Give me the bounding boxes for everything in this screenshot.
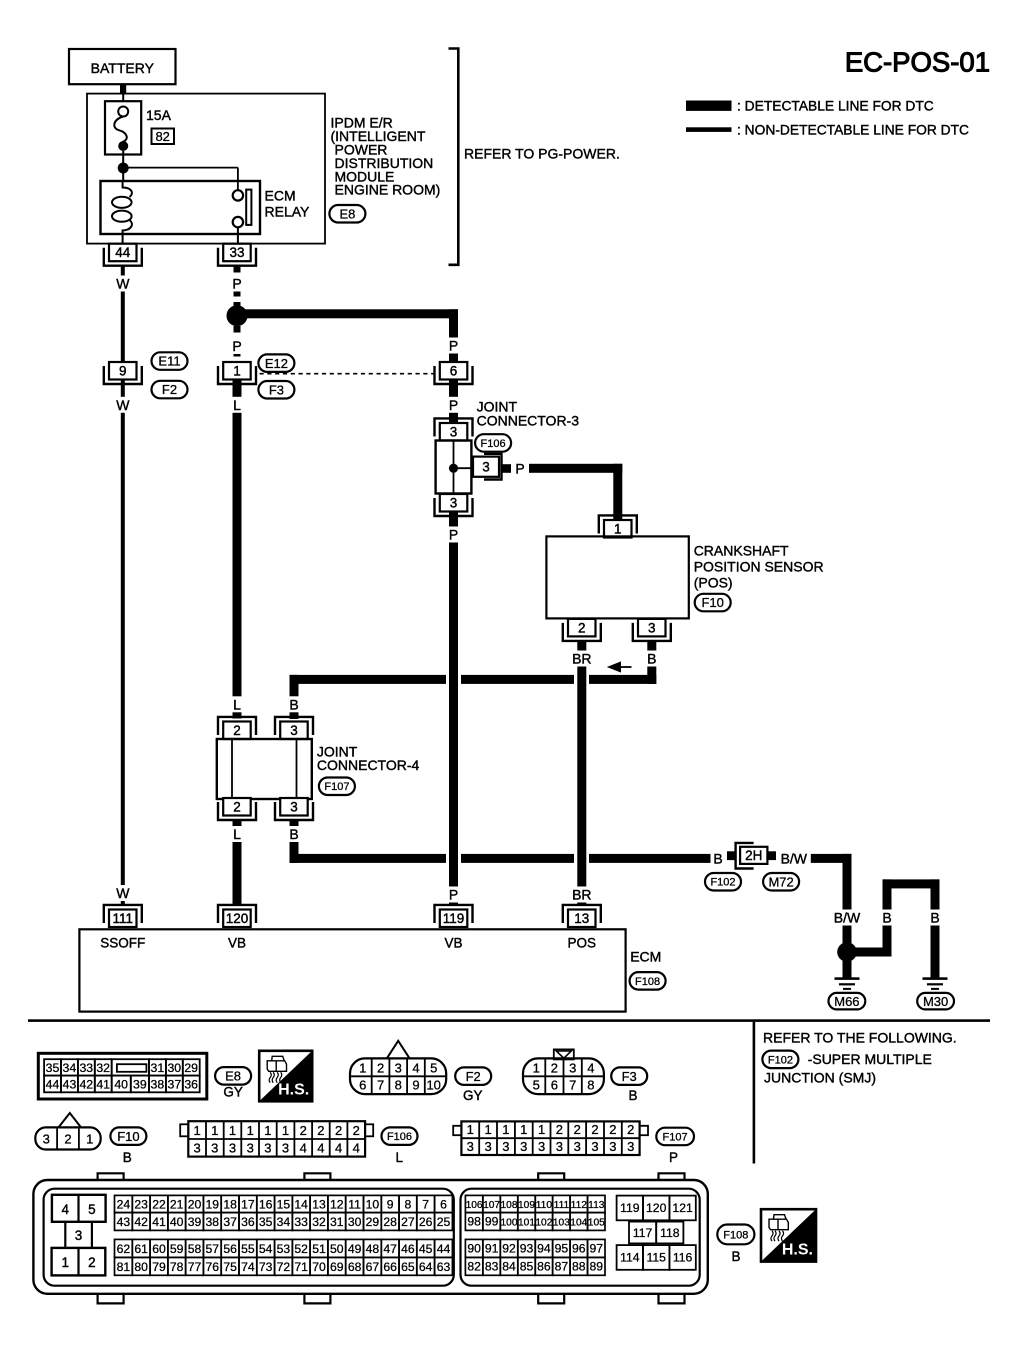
svg-text:82: 82 <box>467 1259 481 1273</box>
connector E8 oval <box>329 205 365 223</box>
svg-text:E11: E11 <box>158 354 180 369</box>
connector F3 oval <box>258 381 294 399</box>
svg-text:2: 2 <box>64 1131 71 1146</box>
joint connector-3 bottom terminal 3 <box>435 498 473 516</box>
label P <box>447 527 461 543</box>
svg-text:111: 111 <box>554 1200 570 1211</box>
svg-text:57: 57 <box>206 1242 220 1256</box>
svg-text:29: 29 <box>184 1061 198 1075</box>
svg-text:GY: GY <box>463 1088 483 1103</box>
svg-text:113: 113 <box>588 1200 605 1211</box>
F108 pins 114-121 <box>617 1196 643 1221</box>
svg-text:98: 98 <box>467 1214 481 1228</box>
svg-text:90: 90 <box>467 1241 481 1255</box>
svg-text:112: 112 <box>571 1200 588 1211</box>
label P <box>230 338 244 354</box>
svg-text:L: L <box>233 696 241 712</box>
svg-text:59: 59 <box>170 1242 184 1256</box>
svg-text:1: 1 <box>502 1122 509 1137</box>
svg-text:10: 10 <box>366 1197 380 1211</box>
svg-text:85: 85 <box>520 1259 534 1273</box>
svg-text:39: 39 <box>133 1078 147 1092</box>
svg-text:JUNCTION (SMJ): JUNCTION (SMJ) <box>764 1069 876 1085</box>
svg-text:44: 44 <box>437 1242 451 1256</box>
ground M66 <box>835 977 860 980</box>
svg-text:3: 3 <box>290 800 298 815</box>
svg-text:35: 35 <box>46 1061 60 1075</box>
svg-text:103: 103 <box>553 1217 570 1228</box>
connector view F108 ECM <box>98 1173 124 1183</box>
svg-text:20: 20 <box>188 1197 202 1211</box>
svg-text:1: 1 <box>538 1122 545 1137</box>
H.S. icon top <box>259 1051 312 1102</box>
svg-text:F102: F102 <box>710 877 735 889</box>
label P <box>230 276 244 292</box>
vertical divider <box>753 1022 756 1164</box>
svg-text:17: 17 <box>241 1197 255 1211</box>
svg-text:3: 3 <box>450 496 458 511</box>
svg-text:6: 6 <box>359 1078 366 1093</box>
svg-text:3: 3 <box>193 1140 200 1155</box>
svg-text:P: P <box>449 397 458 413</box>
H.S. icon bottom <box>761 1209 816 1261</box>
wire P connector 6 to joint connector-3 <box>449 380 458 425</box>
svg-text:36: 36 <box>184 1078 198 1092</box>
svg-text:7: 7 <box>377 1078 384 1093</box>
svg-text:66: 66 <box>383 1260 397 1274</box>
svg-text:H.S.: H.S. <box>278 1081 309 1098</box>
svg-text:4: 4 <box>62 1202 70 1217</box>
svg-text:CRANKSHAFT: CRANKSHAFT <box>694 543 789 559</box>
svg-text:30: 30 <box>167 1061 181 1075</box>
svg-text:34: 34 <box>277 1215 291 1229</box>
label BR <box>571 651 593 667</box>
wire L joint connector-4 to ECM terminal 120 <box>233 821 242 906</box>
svg-text:F3: F3 <box>269 382 284 397</box>
svg-text:7: 7 <box>569 1078 576 1093</box>
svg-text:E8: E8 <box>339 206 355 221</box>
svg-text:62: 62 <box>117 1242 131 1256</box>
svg-text:5: 5 <box>88 1202 96 1217</box>
svg-text:B/W: B/W <box>834 910 861 926</box>
svg-text:10: 10 <box>426 1078 440 1093</box>
svg-text:L: L <box>396 1150 404 1165</box>
svg-text:78: 78 <box>170 1260 184 1274</box>
svg-text:118: 118 <box>660 1226 680 1240</box>
svg-text:89: 89 <box>590 1259 604 1273</box>
svg-text:P: P <box>449 338 458 354</box>
svg-text:(POS): (POS) <box>694 575 733 591</box>
svg-text:1: 1 <box>229 1123 236 1138</box>
svg-text:M66: M66 <box>834 994 859 1009</box>
dashed link connector 1 to 6 <box>260 373 437 375</box>
label B <box>880 910 894 926</box>
legend detectable line <box>686 101 732 111</box>
connector view F2 <box>387 1041 410 1059</box>
svg-text:EC-POS-01: EC-POS-01 <box>845 47 990 78</box>
connector F102 oval <box>705 873 741 891</box>
svg-text:41: 41 <box>152 1215 166 1229</box>
svg-text:B: B <box>930 910 939 926</box>
svg-text:1: 1 <box>484 1122 491 1137</box>
svg-text:101: 101 <box>518 1217 535 1228</box>
svg-text:49: 49 <box>348 1242 362 1256</box>
svg-text:M72: M72 <box>768 874 793 889</box>
svg-text:81: 81 <box>117 1260 131 1274</box>
svg-text:84: 84 <box>502 1259 516 1273</box>
svg-text:M30: M30 <box>923 994 948 1009</box>
connector F10 oval <box>695 594 731 612</box>
svg-text:54: 54 <box>259 1242 273 1256</box>
svg-text:67: 67 <box>366 1260 380 1274</box>
wire BR sensor pin 2 to ECM terminal 13 <box>577 640 586 905</box>
svg-text:87: 87 <box>555 1259 569 1273</box>
svg-text:52: 52 <box>294 1242 308 1256</box>
label L <box>230 696 244 712</box>
svg-text:5: 5 <box>533 1078 540 1093</box>
svg-text:1: 1 <box>233 364 241 379</box>
connector F108 oval <box>630 972 666 990</box>
svg-text:2: 2 <box>353 1123 360 1138</box>
svg-text:45: 45 <box>419 1242 433 1256</box>
svg-text:121: 121 <box>672 1201 693 1215</box>
svg-text:1: 1 <box>86 1131 93 1146</box>
svg-text:69: 69 <box>330 1260 344 1274</box>
label B <box>287 696 301 712</box>
current direction arrow <box>607 661 621 672</box>
svg-text:65: 65 <box>401 1260 415 1274</box>
svg-text:4: 4 <box>412 1061 419 1076</box>
svg-text:: DETECTABLE LINE FOR DTC: : DETECTABLE LINE FOR DTC <box>737 99 934 114</box>
svg-text:2: 2 <box>233 723 241 738</box>
ECM terminal 119 <box>435 905 473 923</box>
label W <box>116 885 130 901</box>
svg-text:P: P <box>515 460 524 476</box>
svg-text:3: 3 <box>43 1131 50 1146</box>
svg-text:47: 47 <box>383 1242 397 1256</box>
svg-text:2: 2 <box>88 1255 96 1270</box>
svg-text:2: 2 <box>551 1061 558 1076</box>
svg-text:B/W: B/W <box>781 850 808 866</box>
svg-text:1: 1 <box>467 1122 474 1137</box>
wire P joint connector-3 to sensor pin 1 <box>529 464 622 473</box>
label W <box>116 397 130 413</box>
svg-text:1: 1 <box>282 1123 289 1138</box>
connector F3 view oval <box>611 1067 647 1085</box>
svg-text:1: 1 <box>264 1123 271 1138</box>
connector view F3 <box>554 1049 574 1059</box>
svg-text:26: 26 <box>419 1215 433 1229</box>
connector M72 oval <box>763 873 799 891</box>
F108 left pin grid <box>115 1195 133 1212</box>
svg-text:F107: F107 <box>663 1131 688 1143</box>
svg-text:3: 3 <box>75 1228 83 1243</box>
svg-text:15A: 15A <box>146 107 172 123</box>
joint connector-4 top terminal 3 <box>275 717 313 735</box>
connector F2 view oval <box>455 1067 491 1085</box>
svg-text:W: W <box>116 276 130 292</box>
connector terminal 1 <box>218 366 256 384</box>
svg-text:3: 3 <box>569 1061 576 1076</box>
svg-text:34: 34 <box>63 1061 77 1075</box>
svg-text:L: L <box>233 826 241 842</box>
joint connector-4 bottom terminal 2 <box>218 802 256 820</box>
svg-text:1: 1 <box>211 1123 218 1138</box>
svg-text:VB: VB <box>228 935 246 950</box>
svg-text:30: 30 <box>348 1215 362 1229</box>
ground M30 <box>923 977 948 980</box>
svg-text:F10: F10 <box>117 1129 139 1144</box>
svg-text:3: 3 <box>290 723 298 738</box>
connector F107 oval <box>319 778 355 796</box>
svg-text:3: 3 <box>482 460 490 475</box>
svg-text:RELAY: RELAY <box>265 203 311 219</box>
svg-text:1: 1 <box>533 1061 540 1076</box>
svg-text:18: 18 <box>223 1197 237 1211</box>
svg-text:F102: F102 <box>768 1054 793 1066</box>
sensor pin 1 <box>599 515 637 533</box>
svg-text:3: 3 <box>484 1139 491 1154</box>
svg-text:3: 3 <box>648 620 656 635</box>
svg-text:3: 3 <box>609 1139 616 1154</box>
svg-text:61: 61 <box>134 1242 148 1256</box>
svg-text:B: B <box>123 1150 132 1165</box>
label B <box>287 826 301 842</box>
connector F106 view oval <box>382 1127 418 1145</box>
svg-text:120: 120 <box>226 911 249 926</box>
svg-text:29: 29 <box>366 1215 380 1229</box>
svg-text:107: 107 <box>483 1200 500 1211</box>
svg-text:H.S.: H.S. <box>782 1242 813 1259</box>
sensor pin 3 <box>633 623 671 641</box>
svg-text:94: 94 <box>537 1241 551 1255</box>
svg-text:86: 86 <box>537 1259 551 1273</box>
svg-text:55: 55 <box>241 1242 255 1256</box>
joint connector-3 body <box>436 441 472 494</box>
svg-text:4: 4 <box>587 1061 594 1076</box>
svg-text:F106: F106 <box>387 1131 412 1143</box>
svg-text:119: 119 <box>620 1201 640 1215</box>
label P <box>447 397 461 413</box>
connector F102 oval note <box>762 1051 798 1069</box>
svg-text:42: 42 <box>134 1215 148 1229</box>
svg-text:2: 2 <box>335 1123 342 1138</box>
svg-text:1: 1 <box>247 1123 254 1138</box>
svg-text:43: 43 <box>63 1078 77 1092</box>
svg-text:3: 3 <box>556 1139 563 1154</box>
svg-text:E12: E12 <box>265 356 288 371</box>
svg-text:36: 36 <box>241 1215 255 1229</box>
svg-text:37: 37 <box>223 1215 237 1229</box>
svg-text:3: 3 <box>502 1139 509 1154</box>
svg-text:24: 24 <box>117 1197 131 1211</box>
svg-text:21: 21 <box>170 1197 184 1211</box>
svg-text:B: B <box>289 696 298 712</box>
svg-text:109: 109 <box>518 1200 535 1211</box>
svg-text:F107: F107 <box>324 781 349 793</box>
joint connector-4 body <box>217 739 312 799</box>
svg-text:3: 3 <box>591 1139 598 1154</box>
svg-text:2: 2 <box>317 1123 324 1138</box>
svg-text:44: 44 <box>115 245 131 260</box>
svg-text:E8: E8 <box>225 1069 241 1084</box>
svg-text:P: P <box>669 1150 678 1165</box>
svg-text:3: 3 <box>264 1140 271 1155</box>
svg-text:3: 3 <box>229 1140 236 1155</box>
IPDM E/R box <box>87 94 325 244</box>
svg-text:83: 83 <box>485 1259 499 1273</box>
svg-text:41: 41 <box>96 1078 110 1092</box>
F108 pins 1-5 <box>52 1195 106 1222</box>
svg-text:3: 3 <box>520 1139 527 1154</box>
svg-text:38: 38 <box>151 1078 165 1092</box>
svg-text:ECM: ECM <box>265 187 296 203</box>
svg-text:48: 48 <box>366 1242 380 1256</box>
svg-text:82: 82 <box>155 129 169 144</box>
svg-text:63: 63 <box>437 1260 451 1274</box>
svg-text:SSOFF: SSOFF <box>100 935 145 950</box>
connector view F107 <box>453 1126 461 1135</box>
label P <box>447 887 461 903</box>
svg-text:BATTERY: BATTERY <box>91 60 155 76</box>
connector terminal 9 <box>104 366 142 384</box>
svg-text:75: 75 <box>223 1260 237 1274</box>
svg-text:ENGINE ROOM): ENGINE ROOM) <box>335 182 441 198</box>
svg-text:31: 31 <box>151 1061 165 1075</box>
svg-text:12: 12 <box>330 1197 344 1211</box>
svg-text:51: 51 <box>312 1242 326 1256</box>
wire L connector 1 to joint connector-4 <box>233 380 242 719</box>
wire B junction to ground M30 <box>847 948 892 957</box>
svg-text:28: 28 <box>383 1215 397 1229</box>
svg-text:4: 4 <box>335 1140 342 1155</box>
svg-text:GY: GY <box>223 1085 243 1100</box>
svg-text:1: 1 <box>62 1255 70 1270</box>
svg-text:13: 13 <box>312 1197 326 1211</box>
svg-text:38: 38 <box>206 1215 220 1229</box>
svg-text:40: 40 <box>114 1078 128 1092</box>
svg-text:L: L <box>233 397 241 413</box>
label B/W <box>832 910 863 926</box>
svg-text:9: 9 <box>412 1078 419 1093</box>
svg-text:: NON-DETECTABLE LINE FOR DTC: : NON-DETECTABLE LINE FOR DTC <box>737 123 969 138</box>
svg-text:REFER TO PG-POWER.: REFER TO PG-POWER. <box>464 145 620 161</box>
svg-text:60: 60 <box>152 1242 166 1256</box>
crankshaft position sensor body <box>546 536 688 618</box>
svg-text:6: 6 <box>551 1078 558 1093</box>
svg-text:3: 3 <box>627 1139 634 1154</box>
terminal 33 <box>218 248 256 266</box>
wire W from terminal 44 to ECM terminal 111 <box>121 266 125 906</box>
connector F106 oval <box>475 434 511 452</box>
svg-text:2: 2 <box>574 1122 581 1137</box>
svg-text:99: 99 <box>485 1214 499 1228</box>
svg-text:6: 6 <box>450 364 458 379</box>
svg-text:40: 40 <box>170 1215 184 1229</box>
svg-text:53: 53 <box>277 1242 291 1256</box>
svg-text:11: 11 <box>348 1197 361 1211</box>
svg-text:93: 93 <box>520 1241 534 1255</box>
svg-text:BR: BR <box>572 651 591 667</box>
svg-text:5: 5 <box>430 1061 437 1076</box>
ECM relay <box>101 181 261 234</box>
fuse 15A 82 <box>122 94 124 102</box>
label BR <box>571 887 593 903</box>
svg-text:80: 80 <box>134 1260 148 1274</box>
svg-text:3: 3 <box>395 1061 402 1076</box>
svg-text:23: 23 <box>134 1197 148 1211</box>
svg-text:73: 73 <box>259 1260 273 1274</box>
svg-text:97: 97 <box>590 1241 604 1255</box>
svg-text:7: 7 <box>422 1197 429 1211</box>
svg-text:P: P <box>449 527 458 543</box>
label B <box>645 651 659 667</box>
svg-text:16: 16 <box>259 1197 273 1211</box>
svg-text:4: 4 <box>317 1140 324 1155</box>
svg-text:2: 2 <box>627 1122 634 1137</box>
svg-text:42: 42 <box>79 1078 93 1092</box>
svg-text:111: 111 <box>113 911 134 926</box>
svg-text:BR: BR <box>572 887 591 903</box>
svg-text:15: 15 <box>277 1197 291 1211</box>
SMJ connector 2H <box>736 843 754 869</box>
svg-text:-SUPER MULTIPLE: -SUPER MULTIPLE <box>808 1051 932 1067</box>
svg-text:92: 92 <box>502 1241 516 1255</box>
svg-text:37: 37 <box>168 1078 182 1092</box>
ECM terminal 13 <box>563 905 601 923</box>
svg-text:4: 4 <box>353 1140 360 1155</box>
svg-text:POS: POS <box>568 935 597 950</box>
svg-text:95: 95 <box>555 1241 569 1255</box>
label B <box>928 910 942 926</box>
svg-text:117: 117 <box>633 1226 653 1240</box>
svg-text:CONNECTOR-3: CONNECTOR-3 <box>477 412 580 428</box>
svg-text:25: 25 <box>437 1215 451 1229</box>
svg-text:74: 74 <box>241 1260 255 1274</box>
svg-text:POSITION SENSOR: POSITION SENSOR <box>694 559 824 575</box>
svg-text:3: 3 <box>467 1139 474 1154</box>
wire battery to IPDM <box>120 84 126 94</box>
wire fuse node to relay contact <box>123 167 238 169</box>
svg-text:72: 72 <box>277 1260 291 1274</box>
svg-text:1: 1 <box>359 1061 366 1076</box>
svg-text:71: 71 <box>294 1260 308 1274</box>
svg-text:114: 114 <box>620 1251 640 1265</box>
svg-text:102: 102 <box>535 1217 552 1228</box>
label L <box>230 397 244 413</box>
ground junction node <box>837 942 857 962</box>
wire B joint connector-4 to SMJ 2H <box>290 821 299 863</box>
svg-text:F108: F108 <box>723 1229 748 1241</box>
svg-text:P: P <box>232 276 241 292</box>
wire P joint connector-3 to ECM terminal 119 <box>449 510 458 905</box>
svg-text:B: B <box>647 651 656 667</box>
label P <box>447 338 461 354</box>
svg-text:6: 6 <box>440 1197 447 1211</box>
svg-text:43: 43 <box>117 1215 131 1229</box>
svg-text:77: 77 <box>188 1260 202 1274</box>
svg-text:50: 50 <box>330 1242 344 1256</box>
svg-text:F10: F10 <box>701 595 723 610</box>
wire B/W from SMJ 2H to ground junction <box>811 854 852 863</box>
svg-text:120: 120 <box>646 1201 667 1215</box>
svg-text:1: 1 <box>193 1123 200 1138</box>
svg-text:116: 116 <box>673 1251 693 1265</box>
svg-text:3: 3 <box>538 1139 545 1154</box>
svg-text:27: 27 <box>401 1215 415 1229</box>
wire P thick from junction to connector 6 <box>237 309 458 318</box>
svg-text:3: 3 <box>211 1140 218 1155</box>
